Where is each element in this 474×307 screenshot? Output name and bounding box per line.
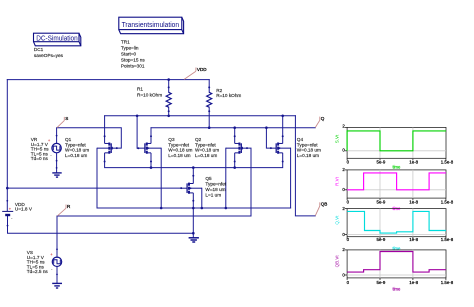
junction ground rail at main ground [192, 232, 195, 235]
svg-text:Q2: Q2 [195, 137, 202, 142]
svg-text:W=18 um: W=18 um [205, 187, 225, 192]
wire rail A node QB [105, 115, 296, 117]
label VR [31, 137, 50, 161]
wire R2 top lead [208, 80, 210, 93]
svg-text:5e-9: 5e-9 [377, 280, 386, 285]
node VDD [184, 67, 207, 80]
svg-text:Points=301: Points=301 [121, 63, 145, 68]
wire Q3 bulk down [160, 148, 162, 208]
svg-text:R=10 kOhm: R=10 kOhm [216, 93, 241, 98]
wire Q3 gate feed [137, 116, 138, 148]
resistor R2 [207, 92, 212, 107]
svg-text:5e-9: 5e-9 [377, 200, 386, 205]
junction VDD feed to Q5 gate rail [6, 187, 9, 190]
svg-text:Type=lin: Type=lin [121, 45, 139, 50]
wire Q3 source stub [150, 162, 152, 168]
svg-text:R1: R1 [137, 87, 143, 92]
svg-text:S.Vt: S.Vt [335, 134, 340, 143]
svg-text:DC1: DC1 [34, 47, 44, 52]
svg-text:U=1.8 V: U=1.8 V [15, 207, 33, 212]
trace R.Vt [347, 173, 446, 190]
wire rail B node Q [151, 127, 315, 129]
svg-text:Type=nfet: Type=nfet [195, 142, 216, 147]
svg-text:saveOPs=yes: saveOPs=yes [34, 53, 64, 58]
junction Q4 gate feed on node Q rail [265, 126, 268, 129]
svg-text:W=0.18 um: W=0.18 um [195, 148, 219, 153]
trace S.Vt [347, 131, 446, 151]
label Q2 [195, 137, 219, 158]
transistor Q3 [138, 136, 161, 161]
svg-text:Start=0: Start=0 [121, 51, 137, 56]
wire Q4 gate feed [266, 128, 271, 148]
svg-text:DC-Simulation: DC-Simulation [36, 35, 78, 42]
wire Q4 bulk down [290, 148, 292, 208]
plot 4 frame QB [345, 250, 446, 280]
transistor Q5 [181, 176, 202, 201]
wire rail C VDD to Q5 gate [7, 187, 181, 189]
svg-text:time: time [392, 246, 401, 251]
wire VDD left vertical [6, 80, 8, 211]
svg-text:Type=nfet: Type=nfet [65, 142, 86, 147]
junction Q3 bulk on bulk rail [160, 207, 163, 210]
label DC1 [34, 47, 64, 58]
wire Q3 drain vertical [150, 128, 152, 137]
wire rail F bulk rail [97, 207, 291, 209]
label Q3 [168, 137, 192, 158]
wire Q5 bulk down [201, 188, 203, 208]
wire Q1 bulk down [96, 148, 98, 208]
plot 2 frame R [345, 170, 446, 200]
plot 3 frame Q [345, 209, 446, 239]
svg-text:S: S [65, 116, 68, 121]
pulse source VS [52, 257, 61, 266]
wire source rail [105, 162, 283, 168]
svg-text:L=0.18 um: L=0.18 um [195, 153, 217, 158]
svg-text:1e-8: 1e-8 [409, 237, 418, 242]
wire R to Q2 gate [247, 148, 251, 216]
wire rail A to QB output [295, 116, 315, 216]
ground under VS [52, 283, 62, 288]
label Q1 [65, 137, 89, 158]
pulse source VR [52, 143, 61, 152]
svg-text:R=10 kOhm: R=10 kOhm [137, 93, 162, 98]
label TR1 [121, 40, 146, 69]
node Q [315, 116, 324, 128]
trace Q.Vt [347, 211, 446, 233]
svg-text:1.5e-8: 1.5e-8 [441, 200, 454, 205]
wire Q2 drain vertical [234, 128, 236, 137]
svg-text:5e-9: 5e-9 [377, 160, 386, 165]
junction Q2 source on source rail [233, 166, 236, 169]
label VS [27, 250, 49, 274]
wire R1 bottom lead [168, 107, 170, 116]
svg-text:Td=0 ns: Td=0 ns [31, 156, 49, 161]
junction Q2 bulk on bulk rail [225, 207, 228, 210]
wire Q1 drain vertical [104, 116, 106, 137]
wire Q2 source stub [234, 162, 236, 168]
svg-text:+: + [48, 138, 51, 143]
svg-text:L=1 um: L=1 um [205, 193, 221, 198]
wire R1 top lead [168, 80, 170, 93]
junction Q5 drain on source rail [192, 166, 195, 169]
svg-text:Type=nfet: Type=nfet [205, 182, 226, 187]
svg-text:W=0.18 um: W=0.18 um [65, 148, 89, 153]
svg-text:1e-8: 1e-8 [409, 280, 418, 285]
node QB [315, 202, 327, 216]
wire rail D R net [57, 215, 251, 217]
svg-text:1e-8: 1e-8 [409, 160, 418, 165]
node S [57, 116, 68, 127]
transistor Q2 [226, 136, 247, 161]
junction R2 bottom on node Q rail [208, 126, 211, 129]
wire S node [57, 128, 122, 148]
svg-text:time: time [392, 165, 401, 170]
simulation box DC-Simulation [34, 33, 81, 46]
wire battery bottom lead [8, 216, 194, 234]
pin dots [168, 86, 170, 88]
wire Q5 drain vertical [192, 168, 194, 176]
wire Q5 source to ground [192, 201, 194, 238]
wire R2 bottom lead [208, 107, 210, 128]
svg-text:Type=nfet: Type=nfet [168, 142, 189, 147]
svg-text:L=0.18 um: L=0.18 um [65, 153, 87, 158]
label R2 [216, 88, 241, 98]
wire VS bottom lead [56, 267, 58, 284]
svg-text:5e-9: 5e-9 [377, 237, 386, 242]
simulation box Transientsimulation [119, 17, 184, 34]
svg-text:+: + [9, 206, 12, 211]
svg-text:Transientsimulation: Transientsimulation [122, 22, 180, 29]
svg-text:Stop=15 ns: Stop=15 ns [121, 57, 146, 62]
plot 1 frame S [345, 127, 446, 160]
svg-text:Q4: Q4 [297, 137, 304, 142]
junction Q3 source on source rail [150, 166, 153, 169]
svg-text:1e-8: 1e-8 [409, 200, 418, 205]
svg-text:1.5e-8: 1.5e-8 [441, 160, 454, 165]
svg-text:Td=2.5 ns: Td=2.5 ns [27, 269, 49, 274]
label R1 [137, 87, 162, 98]
svg-text:Q: Q [321, 116, 325, 121]
svg-text:+: + [50, 252, 53, 257]
wire Q4 drain vertical [282, 116, 284, 137]
svg-text:Q1: Q1 [65, 137, 72, 142]
junction Q4 drain on node QB rail [281, 115, 284, 118]
svg-text:QB: QB [321, 202, 328, 207]
transistor Q4 [271, 136, 291, 161]
wire VDD top rail [7, 79, 209, 81]
svg-text:Q.Vt: Q.Vt [335, 215, 340, 225]
junction R1 bottom on node QB rail [167, 115, 170, 118]
svg-text:W=0.18 um: W=0.18 um [168, 148, 192, 153]
label Q4 [297, 137, 321, 158]
wire VS top lead [56, 216, 58, 257]
svg-text:L=0.18 um: L=0.18 um [297, 153, 319, 158]
ground under VR [52, 173, 61, 177]
wire Q2 bulk down [225, 148, 227, 208]
junction bulk rail to ground stem [192, 207, 195, 210]
junction R1 top on VDD rail [167, 78, 170, 81]
node R [58, 204, 72, 216]
svg-text:L=0.18 um: L=0.18 um [168, 153, 190, 158]
trace QB.Vt [347, 252, 446, 273]
resistor R1 [166, 92, 171, 107]
label Q5 [205, 176, 226, 198]
svg-text:Type=nfet: Type=nfet [297, 142, 318, 147]
svg-text:Q3: Q3 [168, 137, 175, 142]
label VDD source [15, 202, 33, 212]
voltage source VDD battery [2, 211, 13, 215]
svg-text:time: time [392, 286, 401, 291]
svg-text:1.5e-8: 1.5e-8 [441, 237, 454, 242]
svg-text:1.5e-8: 1.5e-8 [441, 280, 454, 285]
wire VR bottom lead [56, 153, 58, 173]
svg-text:W=0.18 um: W=0.18 um [297, 148, 321, 153]
svg-text:VDD: VDD [197, 67, 207, 72]
svg-text:QB.Vt: QB.Vt [335, 255, 340, 268]
ground main under Q5 [189, 238, 199, 242]
svg-text:Q5: Q5 [205, 176, 212, 181]
junction Q5 bulk on bulk rail [201, 207, 204, 210]
svg-text:R.Vt: R.Vt [335, 176, 340, 186]
svg-text:TR1: TR1 [121, 40, 130, 45]
junction Q2 drain on node Q rail [233, 126, 236, 129]
junction Q3 gate feed on node QB rail [136, 115, 139, 118]
transistor Q1 [97, 136, 117, 161]
